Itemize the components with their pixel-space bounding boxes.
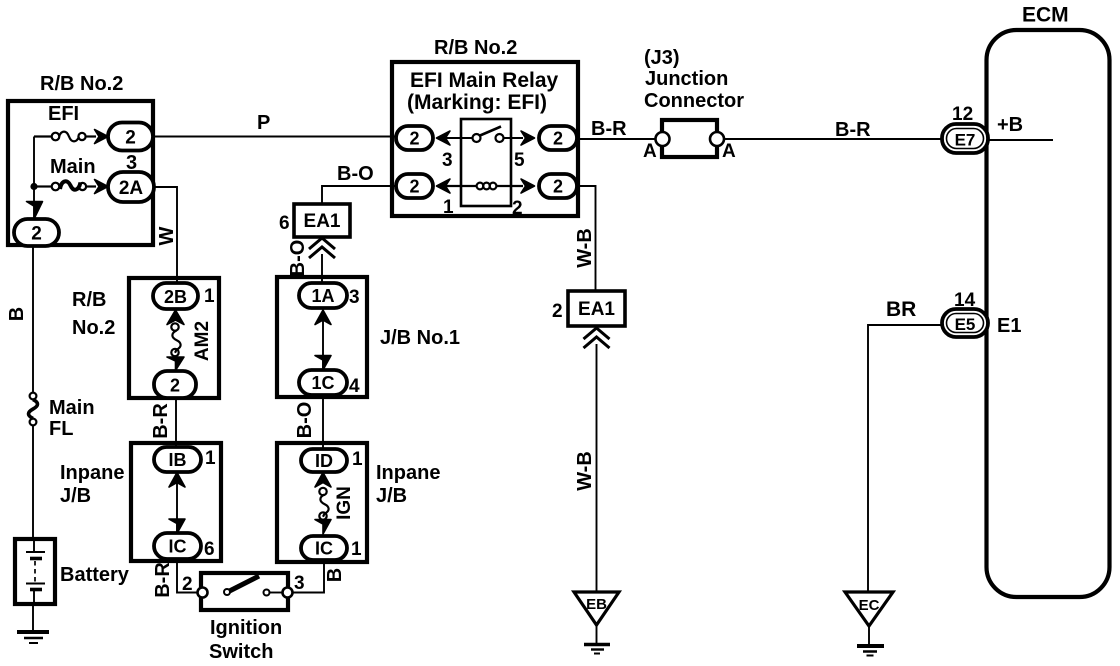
wire IB-IC	[176, 475, 178, 532]
box J/B No.1	[277, 277, 367, 397]
wire 1A-1C	[322, 312, 324, 368]
switch wire to pin 3	[270, 592, 284, 594]
wire EA1 to EB ground	[596, 344, 598, 592]
svg-text:R/B No.2: R/B No.2	[434, 37, 517, 59]
svg-text:1: 1	[351, 539, 362, 560]
wire +B internal	[989, 139, 1053, 141]
wire battery to ground	[32, 604, 34, 632]
svg-text:(J3): (J3)	[644, 47, 680, 69]
svg-text:B-R: B-R	[152, 562, 174, 598]
connector 2 (battery feed)	[14, 219, 59, 246]
svg-text:EA1: EA1	[578, 299, 615, 320]
wire 2 to IB (B-R)	[175, 398, 177, 450]
ground symbol EC	[857, 646, 884, 656]
ignition pin 2 circle	[198, 588, 208, 598]
svg-text:Main: Main	[50, 156, 96, 178]
fuse AM2	[171, 323, 180, 356]
svg-text:J/B: J/B	[376, 485, 407, 507]
connector 2 (relay pin 3)	[396, 126, 433, 150]
connector 2A	[108, 172, 154, 202]
arrow into right pin2 oval	[521, 179, 535, 193]
arrow down above 1C	[315, 356, 331, 371]
svg-text:R/B: R/B	[72, 289, 106, 311]
box Inpane J/B right	[277, 443, 367, 562]
arrow up below IB	[169, 473, 185, 488]
svg-text:AM2: AM2	[192, 321, 213, 361]
svg-text:ID: ID	[315, 451, 333, 471]
chevron splice below EA1 (2)	[584, 328, 610, 348]
svg-text:1: 1	[352, 449, 363, 470]
svg-text:6: 6	[204, 539, 215, 560]
svg-text:B-O: B-O	[294, 402, 316, 439]
connector 2 (relay pin 2)	[539, 174, 577, 198]
svg-text:J/B No.1: J/B No.1	[380, 327, 460, 349]
svg-text:2: 2	[512, 198, 523, 219]
svg-text:1A: 1A	[311, 286, 334, 306]
junction dot	[30, 183, 37, 190]
relay inner box	[461, 119, 511, 206]
connector 2 (relay pin 5)	[539, 126, 577, 150]
wire W-B relay pin2 to EA1	[578, 186, 596, 291]
wire B-O relay pin1 to EA1	[322, 186, 396, 204]
ground triangle EB	[574, 592, 619, 625]
wire 1C to ID (B-O)	[322, 397, 324, 450]
svg-text:2A: 2A	[119, 178, 144, 199]
svg-text:FL: FL	[49, 418, 73, 440]
svg-text:R/B No.2: R/B No.2	[40, 73, 123, 95]
ground symbol EB	[584, 645, 610, 654]
svg-text:1: 1	[204, 286, 215, 307]
svg-text:IB: IB	[169, 450, 187, 470]
arrow into right pin5 oval	[521, 131, 535, 145]
svg-text:B-R: B-R	[591, 118, 627, 140]
svg-text:2: 2	[182, 574, 193, 595]
battery	[15, 539, 55, 604]
arrow down above IC	[169, 519, 185, 534]
svg-text:Inpane: Inpane	[60, 462, 124, 484]
svg-text:4: 4	[349, 376, 360, 397]
svg-text:EB: EB	[586, 596, 607, 613]
svg-text:E5: E5	[955, 315, 976, 334]
wire P	[153, 136, 396, 138]
ECM body	[987, 30, 1110, 597]
junction pin A left	[656, 132, 670, 146]
wire contact right	[504, 137, 523, 139]
svg-text:2: 2	[552, 301, 563, 322]
connector IB	[154, 447, 201, 472]
wire internal left vertical	[33, 137, 35, 220]
svg-text:Main: Main	[49, 397, 95, 419]
svg-text:1C: 1C	[311, 373, 334, 393]
svg-text:2: 2	[170, 376, 180, 396]
arrow into 2	[95, 130, 109, 144]
connector IC (6)	[154, 533, 201, 559]
box Inpane J/B left	[131, 443, 221, 561]
wire B-R relay to junction	[578, 138, 657, 140]
wire EA1 to 1A	[321, 254, 323, 284]
switch blade	[230, 576, 260, 591]
svg-text:P: P	[257, 112, 270, 134]
arrow down above 2	[167, 357, 184, 371]
box R/B No.2 (AM2)	[129, 278, 219, 398]
svg-text:12: 12	[952, 104, 973, 125]
connector IC (1)	[301, 536, 347, 560]
svg-text:(Marking: EFI): (Marking: EFI)	[407, 91, 547, 114]
svg-text:IC: IC	[169, 537, 187, 557]
svg-text:EC: EC	[859, 597, 880, 614]
svg-text:B: B	[6, 307, 28, 321]
svg-text:3: 3	[442, 150, 453, 171]
fusible link Main FL	[29, 393, 38, 426]
wire IC to ignition pin 3	[292, 560, 324, 593]
fuse IGN	[319, 488, 328, 520]
fuse Main (fusible link)	[37, 181, 96, 190]
switch contact circle left	[224, 589, 230, 595]
svg-text:1: 1	[443, 197, 454, 218]
arrow down above IC	[315, 520, 331, 535]
svg-text:B-O: B-O	[287, 240, 309, 277]
svg-text:B-R: B-R	[835, 119, 871, 141]
svg-text:3: 3	[349, 287, 360, 308]
svg-text:Inpane: Inpane	[376, 462, 440, 484]
chevron splice below EA1	[309, 238, 335, 258]
switch contact circle right	[264, 590, 270, 596]
junction connector J3 box	[662, 120, 717, 157]
connector 2 (AM2 out)	[154, 371, 196, 398]
wire EB to ground	[596, 625, 598, 644]
connector 2 (relay pin 1)	[396, 174, 433, 198]
svg-text:EA1: EA1	[304, 211, 341, 232]
svg-text:J/B: J/B	[60, 485, 91, 507]
junction pin A right	[710, 132, 724, 146]
ground symbol battery	[17, 632, 49, 643]
svg-text:No.2: No.2	[72, 317, 115, 339]
svg-text:IC: IC	[315, 539, 333, 559]
connector EA1 (6)	[294, 204, 350, 237]
connector 1C	[299, 370, 347, 395]
wire Main FL to battery	[32, 425, 34, 540]
arrow up below 2B	[167, 310, 184, 325]
ignition switch box	[201, 573, 288, 610]
fuse EFI	[34, 132, 96, 142]
svg-text:W-B: W-B	[574, 451, 596, 491]
svg-text:+B: +B	[997, 114, 1023, 136]
svg-text:2: 2	[125, 128, 136, 149]
svg-text:Battery: Battery	[60, 564, 130, 586]
relay contact	[473, 127, 504, 143]
svg-text:Connector: Connector	[644, 90, 744, 112]
svg-text:2: 2	[409, 129, 419, 149]
connector 2B	[153, 283, 198, 309]
svg-text:2: 2	[553, 129, 563, 149]
arrow into 2A	[95, 180, 109, 194]
svg-text:2: 2	[409, 177, 419, 197]
wire contact left	[446, 137, 472, 139]
svg-text:6: 6	[279, 213, 290, 234]
connector 2 (EFI out, pin 3)	[108, 123, 153, 151]
svg-text:Junction: Junction	[645, 68, 728, 90]
ignition pin 3 circle	[283, 588, 293, 598]
wire IC to ignition pin 2	[177, 559, 198, 593]
svg-text:ECM: ECM	[1022, 4, 1069, 27]
svg-text:2B: 2B	[164, 287, 187, 307]
svg-text:B: B	[324, 568, 346, 582]
ground triangle EC	[845, 592, 893, 626]
arrow down to 2	[27, 202, 43, 219]
svg-text:E7: E7	[955, 131, 976, 150]
svg-text:3: 3	[294, 573, 305, 594]
connector EA1 (2)	[568, 291, 625, 326]
svg-text:W: W	[156, 226, 178, 245]
svg-text:Switch: Switch	[209, 641, 273, 663]
svg-text:5: 5	[514, 150, 525, 171]
connector ID	[301, 449, 347, 472]
svg-text:A: A	[643, 141, 657, 162]
arrow up below ID	[315, 473, 331, 488]
svg-text:EFI Main Relay: EFI Main Relay	[410, 69, 559, 92]
arrow up below 1A	[315, 310, 331, 325]
wire W (2A to 2B)	[154, 187, 177, 284]
svg-text:2: 2	[31, 224, 42, 245]
wire EC to ground	[868, 626, 870, 646]
arrow into pin1 oval	[437, 179, 451, 193]
relay coil	[446, 183, 523, 190]
connector E7	[942, 124, 988, 153]
svg-text:2: 2	[553, 177, 563, 197]
connector E5	[942, 309, 988, 337]
connector 1A	[299, 283, 347, 308]
arrow into pin3 oval	[437, 131, 451, 145]
svg-text:BR: BR	[886, 298, 916, 321]
box R/B No.2	[8, 101, 153, 245]
svg-text:IGN: IGN	[334, 486, 355, 520]
wire B-R junction to E7	[724, 138, 942, 140]
svg-text:1: 1	[205, 448, 216, 469]
svg-text:EFI: EFI	[48, 103, 79, 125]
svg-text:Ignition: Ignition	[210, 617, 282, 639]
svg-text:B-R: B-R	[150, 403, 172, 439]
svg-text:A: A	[722, 141, 736, 162]
svg-text:B-O: B-O	[337, 163, 374, 185]
wire BR to EC ground	[868, 325, 942, 592]
wire B left column (2 to Main FL)	[32, 246, 34, 393]
svg-text:E1: E1	[997, 315, 1021, 337]
box EFI Main Relay	[392, 62, 578, 216]
svg-text:W-B: W-B	[574, 228, 596, 268]
